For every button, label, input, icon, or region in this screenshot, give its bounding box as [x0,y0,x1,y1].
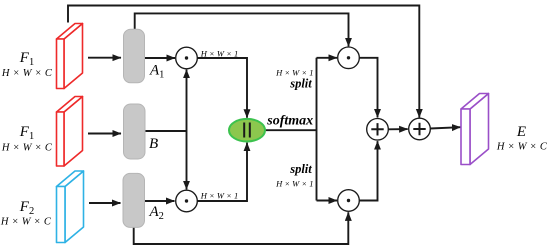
multiplier C3 [338,47,360,69]
wire: P2 to E slab [430,127,460,128]
wire: B up into C1 [186,70,188,131]
wire: F1 slab to A1 [88,57,121,59]
wire: F1 slab top bypass to adder P2 [68,6,419,118]
svg-text:split: split [289,162,312,176]
wire: softmax output to split trunk [265,129,317,131]
svg-text:H × W × C: H × W × C [496,142,548,153]
wire: B output trunk [145,130,187,132]
svg-text:softmax: softmax [266,113,313,128]
svg-text:split: split [289,77,312,91]
wire: split top into C3 [317,57,338,59]
wire: C4 up to adder P1 [359,141,377,200]
wire: A1 to multiplier C1 [145,57,176,59]
svg-text:H × W × C: H × W × C [1,143,53,154]
svg-text:H × W × 1: H × W × 1 [275,68,313,78]
wire: F1 slab2 to B [88,133,121,135]
wire: split trunk vertical [316,58,318,201]
svg-text:H × W × C: H × W × C [0,217,52,228]
multiplier C1 [176,47,198,69]
wire: split bottom into C4 [317,200,338,202]
conv block A2 [123,173,145,227]
svg-text:H × W × 1: H × W × 1 [200,49,238,59]
multiplier C2 [176,190,198,212]
feature map E slab (purple, right) [461,94,489,165]
svg-text:H × W × 1: H × W × 1 [275,179,313,189]
wire: C2 to concat ellipse [197,143,247,201]
adder P1 [367,119,389,141]
svg-text:H × W × C: H × W × C [1,68,53,79]
wire: A2 to multiplier C2 [145,200,175,202]
wire: A1 top bypass to multiplier C3 [135,13,349,46]
svg-text:A1: A1 [149,63,164,81]
svg-text:H × W × 1: H × W × 1 [200,191,238,201]
svg-text:E: E [516,124,526,140]
svg-text:F2: F2 [19,199,34,217]
adder P2 [409,118,431,140]
svg-text:F1: F1 [19,50,34,68]
svg-text:A2: A2 [149,204,164,222]
wire: B down into C2 [186,131,188,189]
feature map F1 slab (red, middle) [57,97,83,167]
wire: C3 down to adder P1 [359,58,377,118]
feature map F1 slab (red, top) [57,24,83,89]
conv block A1 [124,29,145,83]
wire: C1 to concat ellipse [197,58,247,118]
svg-text:F1: F1 [19,124,34,142]
wire: F2 slab to A2 [89,202,121,204]
concat ellipse [229,119,265,142]
svg-text:B: B [149,136,158,152]
multiplier C4 [338,190,360,212]
conv block B [124,104,146,159]
wire: P1 to P2 [388,128,408,130]
wire: A2 bottom bypass to C4 [134,212,349,244]
feature map F2 slab (cyan, bottom) [57,171,84,243]
